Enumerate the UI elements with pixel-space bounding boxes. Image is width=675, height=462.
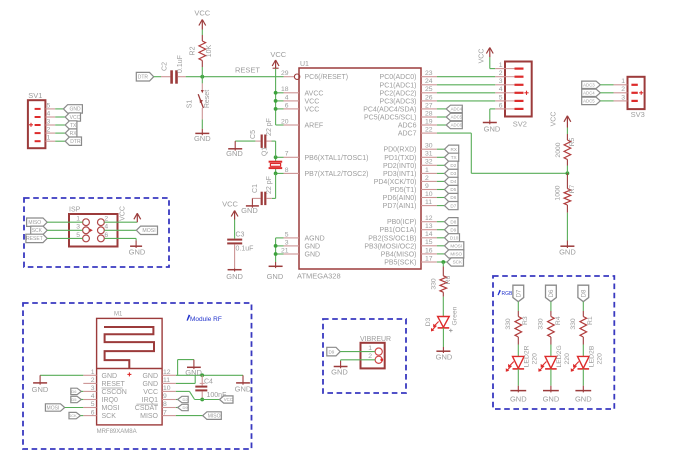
- svg-text:32: 32: [425, 159, 433, 166]
- svg-text:26: 26: [425, 94, 433, 101]
- svg-text:2000: 2000: [555, 142, 562, 157]
- pin 3 of ISP: [76, 224, 89, 234]
- wire D6 to M1 pin3: [81, 390, 83, 392]
- wire DTR to C2: [154, 76, 171, 78]
- pin 18 AVCC of U1: [281, 86, 324, 97]
- net flag D9: [445, 226, 459, 234]
- pin 23 PC0(ADC0) of U1: [380, 70, 437, 81]
- svg-text:CSCON: CSCON: [102, 389, 127, 396]
- net flag D4: [445, 177, 459, 185]
- svg-text:MOSI: MOSI: [102, 405, 120, 412]
- svg-text:16: 16: [425, 247, 433, 254]
- pin 25 PC2(ADC2) of U1: [380, 86, 437, 97]
- svg-text:4: 4: [47, 110, 51, 117]
- dashed frame RGB block: [493, 276, 614, 409]
- svg-text:PC4(ADC4/SDA): PC4(ADC4/SDA): [363, 106, 416, 113]
- wire M1 pin10 VCC net: [176, 391, 220, 399]
- LED LED2G 220: [538, 345, 571, 372]
- net flag D8: [445, 218, 459, 226]
- svg-text:CSDAT: CSDAT: [135, 405, 159, 412]
- net flag D3: [445, 169, 459, 177]
- svg-text:R4: R4: [555, 316, 562, 325]
- svg-text:D6: D6: [549, 289, 555, 297]
- polarity dot VIBREUR pin2: [380, 358, 383, 361]
- pin 21 GND of U1: [281, 247, 320, 258]
- svg-text:1: 1: [76, 216, 80, 223]
- wire D3 to GND: [442, 328, 444, 347]
- svg-text:D2: D2: [450, 163, 456, 168]
- svg-text:1: 1: [368, 345, 372, 352]
- wire D9 to VIBREUR pin1: [340, 351, 375, 353]
- svg-text:GND: GND: [575, 394, 592, 403]
- pin 20 AREF of U1: [281, 118, 323, 129]
- svg-text:PD4(XCK/T0): PD4(XCK/T0): [374, 179, 417, 186]
- svg-text:12: 12: [425, 215, 433, 222]
- wire M1 pin9 stub: [176, 399, 178, 401]
- svg-text:PD7(AIN1): PD7(AIN1): [383, 203, 417, 210]
- connector VIBREUR: [360, 336, 391, 368]
- wire SV1 pin4 to VCC flag: [55, 116, 65, 118]
- svg-text:1000: 1000: [555, 185, 562, 200]
- svg-text:RESET: RESET: [26, 236, 43, 242]
- net flag D9 at M1 pin8: [178, 404, 189, 410]
- wire ADC5 to SV3 pin3: [600, 100, 613, 102]
- pin 28 PC5(ADC5/SCL) of U1: [364, 110, 437, 121]
- svg-text:1: 1: [91, 369, 95, 376]
- svg-text:ADC5: ADC5: [451, 115, 463, 120]
- pin 29 PC6(/RESET) of U1: [281, 70, 348, 81]
- pin 6 of ISP: [98, 232, 109, 242]
- svg-text:10: 10: [163, 385, 171, 392]
- svg-text:S1: S1: [186, 100, 193, 109]
- net flag GND at SV1: [63, 105, 82, 113]
- svg-text:D7: D7: [517, 289, 523, 297]
- wire PC0 to SV2 pin2: [437, 76, 495, 78]
- svg-text:MRF89XAM8A: MRF89XAM8A: [97, 429, 137, 435]
- wire D6 stub: [437, 197, 445, 199]
- svg-text:14: 14: [425, 231, 433, 238]
- pin 7 MISO of M1: [140, 409, 176, 420]
- svg-text:GND: GND: [331, 367, 348, 376]
- wire D5 stub: [437, 189, 445, 191]
- wire M1 pin11 to GND net: [176, 375, 195, 383]
- wire C1 to GND: [252, 198, 260, 204]
- svg-text:SCK: SCK: [32, 228, 43, 234]
- svg-text:PC1(ADC1): PC1(ADC1): [380, 82, 417, 89]
- svg-text:5: 5: [76, 232, 80, 239]
- resistor R1 330: [570, 311, 594, 345]
- svg-text:ADC3: ADC3: [583, 82, 595, 87]
- wire M1 pin7 to MISO: [176, 415, 203, 417]
- svg-text:6: 6: [499, 102, 503, 109]
- capacitor C3 0.1uF: [227, 232, 253, 253]
- svg-text:RGB: RGB: [502, 291, 514, 297]
- svg-text:MISO: MISO: [208, 413, 221, 419]
- svg-text:GND: GND: [69, 107, 81, 113]
- svg-text:15: 15: [425, 239, 433, 246]
- net flag MISO at ISP: [27, 218, 48, 226]
- svg-text:19: 19: [425, 118, 433, 125]
- pin 5 of SV1: [35, 102, 56, 110]
- svg-text:ADC6: ADC6: [398, 123, 417, 130]
- pin 1 of SV3: [614, 78, 638, 86]
- wire D7 to R3: [517, 302, 519, 311]
- svg-text:8: 8: [285, 167, 289, 174]
- svg-text:LED2B: LED2B: [589, 345, 596, 367]
- dashed frame Module RF block: [23, 303, 252, 449]
- svg-text:11: 11: [425, 199, 432, 206]
- svg-text:25: 25: [425, 86, 433, 93]
- svg-text:PB3(MOSI/OC2): PB3(MOSI/OC2): [364, 243, 416, 250]
- svg-text:7: 7: [285, 151, 289, 158]
- svg-text:0.1uF: 0.1uF: [236, 246, 254, 253]
- polarity mark SV1: [29, 123, 33, 127]
- wire SCK to M1 pin6: [80, 415, 83, 417]
- svg-text:12: 12: [163, 369, 171, 376]
- wire M1 pin12 GND net: [176, 360, 243, 376]
- svg-text:VCC: VCC: [224, 397, 233, 402]
- svg-text:28: 28: [425, 110, 433, 117]
- svg-text:GND: GND: [241, 206, 258, 215]
- wire LED2R to GND: [517, 369, 519, 386]
- svg-text:VCC: VCC: [120, 206, 127, 221]
- resistor R6 330: [431, 262, 452, 316]
- svg-text:PD2(INT0): PD2(INT0): [383, 163, 416, 170]
- resistor R4 330: [538, 311, 562, 345]
- wire ADC4: [437, 108, 446, 110]
- LED LED2B 220: [571, 345, 604, 372]
- ground at C1: [241, 204, 259, 215]
- wire ADC5: [437, 116, 446, 118]
- svg-text:R7: R7: [569, 184, 576, 193]
- svg-text:VCC: VCC: [270, 50, 286, 59]
- wire C3 to GND: [234, 244, 236, 268]
- wire AGND GND pins to ground rail: [276, 238, 284, 262]
- net flag D6 at M1 pin3: [71, 388, 82, 394]
- svg-text:22 pF: 22 pF: [266, 118, 273, 136]
- wire S1 to GND: [201, 119, 203, 128]
- svg-text:Reset: Reset: [204, 90, 211, 108]
- svg-text:21: 21: [281, 247, 289, 254]
- polarity mark SV3: [639, 91, 643, 95]
- wire VCC rail: [276, 69, 284, 125]
- svg-text:0.1uF: 0.1uF: [177, 55, 184, 73]
- connector ISP header: [69, 207, 118, 247]
- svg-text:SV2: SV2: [513, 120, 527, 129]
- polarity mark SV2: [524, 91, 528, 95]
- wire D5 to M1 pin4: [81, 399, 83, 401]
- svg-text:1: 1: [47, 135, 51, 142]
- wire LED2B to GND: [582, 369, 584, 386]
- svg-text:R2: R2: [189, 46, 196, 55]
- pin 16 PB4(MISO) of U1: [381, 247, 437, 258]
- svg-text:GND: GND: [226, 149, 243, 158]
- svg-text:VCC: VCC: [222, 200, 238, 209]
- net flag D5 at M1 pin4: [71, 396, 82, 402]
- svg-text:TX: TX: [70, 123, 77, 129]
- svg-text:PC3(ADC3): PC3(ADC3): [380, 98, 417, 105]
- svg-text:7: 7: [163, 409, 167, 416]
- svg-text:D2: D2: [182, 397, 188, 402]
- svg-text:3: 3: [285, 239, 289, 246]
- pin 4 of SV1: [35, 110, 56, 118]
- pin 30 PD0(RXD) of U1: [383, 143, 436, 154]
- svg-text:GND: GND: [235, 384, 252, 393]
- svg-text:R5: R5: [569, 137, 576, 146]
- svg-text:9: 9: [163, 393, 167, 400]
- wire RX stub: [437, 148, 445, 150]
- wire SCK stub: [437, 261, 447, 263]
- node C4 bottom junction: [200, 398, 204, 402]
- label RGB: [498, 290, 514, 297]
- svg-text:ADC4: ADC4: [451, 106, 463, 111]
- svg-text:4: 4: [104, 224, 108, 231]
- svg-text:VCC: VCC: [305, 98, 320, 105]
- svg-text:Module RF: Module RF: [190, 316, 222, 323]
- pin 1 of VIBREUR: [368, 345, 382, 355]
- svg-text:GND: GND: [543, 394, 560, 403]
- svg-text:GND: GND: [436, 352, 453, 361]
- wire VCC to SV2 pin1: [490, 57, 495, 69]
- svg-text:MISO: MISO: [450, 252, 462, 257]
- net flag DTR at SV1: [65, 137, 81, 145]
- wire R4 to LED2G: [550, 345, 552, 357]
- node XTAL1 junction: [274, 155, 278, 159]
- pin 2 RESET of M1: [83, 377, 125, 388]
- net flag D6: [445, 193, 459, 201]
- pin 2 of ISP: [98, 216, 109, 226]
- svg-text:D4: D4: [450, 179, 456, 184]
- net flag VCC at SV1: [65, 113, 80, 121]
- net flag TX: [445, 153, 459, 161]
- power VCC at AVCC rail: [270, 50, 286, 69]
- svg-text:GND: GND: [510, 394, 527, 403]
- svg-text:RX: RX: [451, 147, 457, 152]
- wire MOSI to M1 pin5: [65, 407, 84, 409]
- svg-text:PC6(/RESET): PC6(/RESET): [305, 74, 349, 81]
- svg-text:Green: Green: [452, 306, 459, 325]
- net flag D8 at RGB: [578, 285, 589, 302]
- pin 3 of SV2: [495, 78, 523, 86]
- pin 11 GND of M1: [142, 377, 175, 388]
- svg-text:D5: D5: [71, 397, 77, 402]
- svg-text:ISP: ISP: [69, 207, 81, 214]
- svg-text:RX: RX: [70, 131, 78, 137]
- net flag VCC at M1: [220, 396, 234, 403]
- svg-text:6: 6: [285, 102, 289, 109]
- svg-text:PC5(ADC5/SCL): PC5(ADC5/SCL): [364, 115, 417, 122]
- wire RESET to ISP pin5: [47, 237, 82, 239]
- net flag RX at SV1: [65, 129, 77, 137]
- svg-text:PD0(RXD): PD0(RXD): [383, 147, 416, 154]
- switch S1 Reset: [186, 77, 211, 120]
- wire D8 stub: [437, 221, 445, 223]
- svg-text:5: 5: [47, 102, 51, 109]
- wire SV1 pin5 to GND flag: [55, 108, 63, 110]
- wire D10 stub: [437, 237, 445, 239]
- svg-text:R6: R6: [445, 275, 452, 284]
- svg-text:GND: GND: [102, 373, 118, 380]
- svg-text:MOSI: MOSI: [450, 243, 462, 248]
- svg-text:5: 5: [285, 231, 289, 238]
- wire ADC4 to SV3 pin2: [600, 92, 613, 94]
- svg-text:D10: D10: [450, 235, 459, 240]
- svg-text:29: 29: [281, 70, 289, 77]
- svg-text:1: 1: [499, 62, 503, 69]
- svg-text:3: 3: [499, 78, 503, 85]
- svg-text:18: 18: [281, 86, 289, 93]
- pin 12 PB0(ICP) of U1: [387, 215, 437, 226]
- svg-text:VIBREUR: VIBREUR: [360, 336, 391, 343]
- svg-text:AVCC: AVCC: [305, 90, 324, 97]
- net flag SCK at M1 pin6: [68, 412, 80, 418]
- capacitor C4 100nF: [195, 375, 226, 399]
- pin 8 PB7(XTAL2/TOSC2) of U1: [284, 167, 369, 178]
- svg-text:C3: C3: [236, 232, 245, 239]
- connector SV1: [28, 91, 46, 148]
- wire VIBREUR pin2 to GND: [341, 360, 376, 361]
- svg-text:MISO: MISO: [140, 413, 158, 420]
- module M1 MRF89XAM8A body: [97, 312, 163, 435]
- wire VCC to C3: [234, 220, 236, 239]
- pin 8 CSDAT of M1: [135, 401, 176, 412]
- svg-text:24: 24: [425, 78, 433, 85]
- wire D4 stub: [437, 180, 445, 182]
- svg-text:ADC5: ADC5: [583, 98, 595, 103]
- node divider junction: [566, 171, 570, 175]
- ground at LED2B: [575, 386, 592, 404]
- svg-text:LED2G: LED2G: [556, 345, 563, 367]
- svg-text:GND: GND: [267, 272, 284, 281]
- svg-text:330: 330: [538, 318, 545, 330]
- pin 10 VCC of M1: [143, 385, 176, 396]
- svg-text:C5: C5: [250, 130, 257, 139]
- svg-text:PD1(TXD): PD1(TXD): [384, 155, 416, 162]
- svg-text:GND: GND: [129, 247, 146, 256]
- pin 2 of SV1: [35, 127, 56, 135]
- svg-text:RESET: RESET: [235, 66, 260, 75]
- svg-text:D8: D8: [582, 289, 588, 297]
- net flag ADC5: [446, 113, 462, 120]
- net flag SCK at ISP: [31, 226, 48, 234]
- net flag ADC4 at SV3: [582, 89, 601, 96]
- resistor R2 10K: [189, 30, 212, 77]
- svg-text:D9: D9: [328, 349, 334, 354]
- ground at R7: [559, 241, 576, 257]
- svg-text:C1: C1: [252, 184, 259, 193]
- net flag SCK: [447, 258, 464, 266]
- pin 17 PB5(SCK) of U1: [384, 255, 437, 266]
- svg-text:C4: C4: [204, 379, 213, 386]
- label Module RF: [187, 315, 222, 323]
- wire R3 to LED2R: [517, 345, 519, 357]
- node C4 top junction: [200, 373, 204, 377]
- svg-text:10K: 10K: [206, 44, 213, 57]
- pin 4 of ISP: [98, 224, 109, 234]
- svg-text:VCC: VCC: [305, 106, 320, 113]
- wire TX stub: [437, 156, 445, 158]
- wire M1 pin1 to GND: [40, 374, 83, 376]
- connector SV2: [505, 62, 532, 129]
- svg-text:330: 330: [505, 318, 512, 330]
- svg-text:ADC6: ADC6: [451, 123, 463, 128]
- power VCC at C3: [222, 200, 238, 220]
- svg-text:PD6(AIN0): PD6(AIN0): [383, 195, 417, 202]
- resistor R3 330: [505, 311, 529, 345]
- wire XTAL2 to Q1: [276, 169, 284, 174]
- wire SV1 pin2 to RX flag: [55, 132, 65, 134]
- pin 5 AGND of U1: [284, 231, 325, 242]
- svg-text:17: 17: [425, 255, 433, 262]
- svg-text:M1: M1: [114, 312, 123, 318]
- svg-text:PD5(T1): PD5(T1): [390, 187, 416, 194]
- dashed frame ISP block: [24, 198, 169, 267]
- pin 32 PD2(INT0) of U1: [383, 159, 437, 170]
- pin 9 PD5(T1) of U1: [390, 183, 437, 194]
- pin 15 PB3(MOSI/OC2) of U1: [364, 239, 437, 250]
- svg-text:D3: D3: [450, 171, 456, 176]
- svg-text:IRQ0: IRQ0: [102, 397, 118, 404]
- svg-text:22: 22: [425, 127, 433, 134]
- net flag ADC5 at SV3: [582, 97, 601, 104]
- svg-text:R1: R1: [587, 316, 594, 325]
- wire SV1 pin3 to TX flag: [55, 124, 65, 126]
- svg-text:220: 220: [532, 353, 539, 365]
- net flag MISO: [445, 250, 464, 258]
- pin 27 PC4(ADC4/SDA) of U1: [363, 102, 437, 113]
- svg-text:2: 2: [91, 377, 95, 384]
- svg-text:D5: D5: [450, 187, 456, 192]
- pin 2 of SV3: [614, 86, 638, 94]
- ground under S1: [194, 129, 211, 143]
- ground at M1 pin1: [32, 375, 49, 394]
- IC U1 ATMEGA328 body: [297, 61, 421, 281]
- pin 13 PB1(OC1A) of U1: [380, 223, 437, 234]
- resistor R7 1000: [555, 173, 577, 240]
- svg-text:ADC7: ADC7: [398, 131, 417, 138]
- wire ADC7 to divider: [437, 133, 568, 173]
- ground at M1 top: [185, 360, 202, 378]
- svg-text:2: 2: [499, 70, 503, 77]
- LED LED2R 220: [506, 345, 539, 371]
- svg-text:VCC: VCC: [551, 112, 558, 127]
- pin 6 VCC of U1: [284, 102, 320, 113]
- svg-text:PB7(XTAL2/TOSC2): PB7(XTAL2/TOSC2): [305, 171, 369, 178]
- wire D6 to R4: [550, 302, 552, 311]
- net flag D2: [445, 161, 459, 169]
- svg-text:2: 2: [368, 353, 372, 360]
- ground at M1 right: [235, 375, 252, 393]
- wire D7 stub: [437, 205, 445, 207]
- svg-text:5: 5: [499, 94, 503, 101]
- svg-text:R3: R3: [522, 316, 529, 325]
- net flag D10: [445, 234, 460, 242]
- svg-text:GND: GND: [142, 381, 158, 388]
- ground at C5: [226, 141, 243, 158]
- pin 11 PD7(AIN1) of U1: [383, 199, 437, 210]
- svg-text:RESET: RESET: [102, 381, 126, 388]
- svg-text:31: 31: [425, 151, 433, 158]
- wire D2 stub: [437, 164, 445, 166]
- svg-text:3: 3: [91, 385, 95, 392]
- wire M1 pin8 stub: [176, 407, 178, 409]
- svg-text:PB6(XTAL1/TOSC1): PB6(XTAL1/TOSC1): [305, 155, 369, 162]
- node SCK junction: [441, 260, 445, 264]
- capacitor C5 22pF: [250, 118, 273, 148]
- ground at D3: [436, 347, 453, 361]
- pin 5 of ISP: [76, 232, 89, 242]
- svg-text:GND: GND: [32, 385, 49, 394]
